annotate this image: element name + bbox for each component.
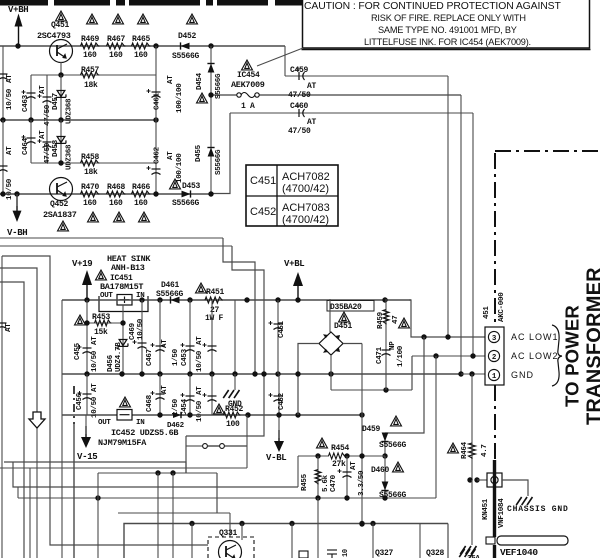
svg-text:AT: AT [6,74,14,83]
resistor R464 [469,443,476,459]
svg-text:R470: R470 [81,183,100,192]
capacitor C451 [269,321,283,330]
wire from C459 to pin3 [447,76,449,337]
wire C459 drop from top rail [284,46,286,76]
capacitor C463 [22,90,36,99]
wire ladder y513 [118,512,230,514]
svg-text:AT: AT [5,323,13,332]
ground below R464 [460,546,476,554]
junction pin1 x472 [469,371,474,376]
svg-text:15k: 15k [94,328,108,337]
junction R453 C455 [84,320,89,325]
wire ladder x30 [29,468,31,558]
junction rail374 x212 [209,371,214,376]
junction rail374 x235 [232,371,237,376]
svg-text:18k: 18k [84,81,98,90]
safety triangle R464 [448,443,459,453]
wire ladder x217 link [216,473,218,513]
brace to transformer [552,325,562,386]
wire R454 row left [298,455,329,457]
wire left cap column top [2,46,4,120]
resistor R453 [95,320,112,326]
junction rail right [244,297,249,302]
wire ladder x173 [172,473,174,558]
wire V+19 rail [62,299,411,301]
wire box divider x373 [372,524,374,558]
svg-text:D451: D451 [334,322,353,331]
junction pin3 x448 [445,334,450,339]
svg-text:47: 47 [392,316,400,324]
junction rail374 x255 [252,371,257,376]
wire bridge right to x362 [343,343,362,345]
transistor Q451 [50,40,73,63]
svg-text:R468: R468 [107,183,126,192]
wire bus drop x192 [191,524,193,558]
svg-text:10: 10 [342,549,350,557]
safety triangle Q451 [56,11,67,21]
resistor R457 [81,72,100,78]
svg-text:AT: AT [167,151,175,160]
capacitor 10/50 row2 [203,393,217,402]
fuse IC454 [211,93,461,98]
svg-text:10/50: 10/50 [196,400,204,422]
junction D459 R454 [382,453,387,458]
ferrite bead VEF1040 [497,536,568,545]
svg-text:Q452: Q452 [50,200,69,209]
svg-text:AT: AT [6,146,14,155]
junction pin2 x473 [470,353,475,358]
wire staircase inner [186,246,264,436]
svg-text:1/100: 1/100 [397,345,405,367]
safety triangle D460 [393,462,404,472]
wire ladder y487 [13,462,298,487]
wire C468 column [159,374,161,415]
wire gnd drop x235 [234,374,236,390]
V-BL arrow [274,430,284,452]
svg-text:3.3/50: 3.3/50 [358,470,366,496]
junction mid rail C461 [153,117,158,122]
svg-text:C471: C471 [376,346,384,364]
wire C460 row [230,112,473,114]
junction R464 KN451 a [467,477,472,482]
wire C454 column [189,374,191,415]
svg-text:VNF1084: VNF1084 [498,498,506,528]
junction rail374 x461 [458,371,463,376]
junction y498 D460 [382,495,387,500]
wire D458 column [60,120,62,163]
regulator IC451 outline [99,295,148,312]
wire pin2 row [412,355,486,357]
junction ladder y473 b [170,470,175,475]
capacitor C455 [78,345,92,354]
safety triangle D453 [170,179,181,189]
svg-text:160: 160 [109,51,123,60]
svg-text:1/50: 1/50 [172,348,180,366]
junction rail R459 [382,297,387,302]
transistor Q331 dashed box [208,537,254,558]
wire box divider x292 [291,524,293,558]
svg-text:AT: AT [307,82,317,91]
off-page hollow arrow [29,412,45,428]
diode D455 [207,148,214,157]
wire y487 to y498 link [17,487,19,498]
svg-text:C453: C453 [181,348,189,366]
wire KN451 left [477,479,487,481]
svg-text:4.7: 4.7 [481,444,489,457]
wire ladder y468 [0,467,247,469]
svg-text:2SA1837: 2SA1837 [43,210,77,220]
cropped text bar 8 [275,0,302,6]
svg-text:OUT: OUT [98,419,111,427]
svg-text:27k: 27k [332,460,346,469]
safety triangle R466 [139,212,150,222]
wire cap1050 column r2 [211,374,213,415]
ground at x235 [223,390,239,398]
svg-text:RISK OF FIRE. REPLACE ONLY WIT: RISK OF FIRE. REPLACE ONLY WITH [371,13,526,23]
svg-text:GND: GND [511,370,534,380]
capacitor 10/50 row1 [203,343,217,352]
junction bottom rail C471 [383,387,388,392]
junction R453 D456 [120,320,125,325]
svg-text:IC454: IC454 [237,71,260,80]
wire x247 rail415 to ladder [246,415,248,468]
svg-text:AT: AT [161,339,169,348]
junction fuse/D454 [208,92,213,97]
svg-text:AC LOW1: AC LOW1 [511,332,559,342]
V-15 arrow [81,426,91,448]
wire bridge bottom [330,355,332,390]
connector pin 3 circle [488,331,499,342]
wire C469 column [141,300,143,374]
capacitor C468 [151,391,165,400]
wire from fuse to pin1 rail [460,95,462,374]
junction R464 KN451 b [474,477,479,482]
svg-text:V-15: V-15 [77,452,97,462]
safety triangle R469 [87,14,98,24]
safety triangle R452 [214,404,225,414]
safety triangle D452 [187,14,198,24]
resistor R451 [205,297,223,303]
junction rail374 x190 [187,371,192,376]
wire nested corner 2 [0,268,37,412]
connector CN451 box [485,327,504,385]
wire staircase outer [223,238,255,374]
junction rail374 x264 [261,371,266,376]
caution note box [302,0,591,50]
svg-text:R455: R455 [301,473,309,491]
wire lower rail top section [0,193,211,195]
wire C464 column [30,120,32,163]
svg-text:C456: C456 [76,392,84,410]
svg-text:D453: D453 [182,182,201,191]
wire Q331 collector [241,524,243,541]
safety triangle R459 [399,318,410,328]
junction rail374 x87 [84,371,89,376]
junction R455 top [315,453,320,458]
svg-text:(4700/42): (4700/42) [282,183,329,195]
svg-text:S5566G: S5566G [172,199,200,208]
junction rail V+19 arrow [84,297,89,302]
svg-text:OUT: OUT [100,292,113,300]
wire V-BH feed outer [0,237,223,239]
cropped text bar 2 [54,0,63,6]
svg-text:D35BA20: D35BA20 [330,303,362,312]
svg-text:160: 160 [83,199,97,208]
connector pin small [486,537,495,544]
svg-text:10/50: 10/50 [91,350,99,372]
svg-text:C459: C459 [290,66,309,75]
capacitor C462 [147,166,161,175]
junction bus x362 [359,521,364,526]
svg-text:R452: R452 [225,405,244,414]
partial component bottom b [299,551,308,558]
svg-text:10/50: 10/50 [6,88,14,110]
capacitor 47/50 row B [38,139,52,148]
safety triangle Q452 [58,221,69,231]
junction rail415 C468 [157,412,162,417]
safety triangle R465 [138,14,149,24]
svg-text:C462: C462 [154,146,162,164]
wire ladder x230 [229,513,231,537]
safety triangle R453 [75,315,86,325]
junction rail C451 [275,297,280,302]
resistor R466 [132,191,151,197]
V+BL arrow [293,272,303,300]
svg-text:C452: C452 [250,206,276,218]
svg-text:C461: C461 [154,92,162,110]
svg-text:47/50: 47/50 [288,127,311,136]
svg-text:BA178M15T: BA178M15T [100,282,143,292]
svg-text:C452: C452 [278,392,286,410]
svg-text:KN451: KN451 [482,498,490,520]
junction rail374 x278 [275,371,280,376]
wire KN451 to chassis [502,480,528,496]
diode D454 [207,64,214,73]
svg-text:ACH7082: ACH7082 [282,171,330,183]
diode D462 [173,412,181,418]
svg-text:ACH7083: ACH7083 [282,202,330,214]
wire cap1050 column r1 [211,300,213,374]
wire D459 column [384,433,386,456]
wire V-BH stem [16,194,18,206]
svg-text:18k: 18k [84,168,98,177]
svg-text:1 A: 1 A [241,102,255,111]
svg-text:Q328: Q328 [426,549,445,558]
wire top rail [0,45,285,47]
wire nested corner 3 [0,282,24,558]
wire V-BL stem [278,415,280,438]
svg-text:AT: AT [167,75,175,84]
wire R455 column [317,456,319,498]
safety triangle R454 [317,438,328,448]
svg-text:C469: C469 [129,322,137,340]
wire bus corner right [447,524,449,558]
svg-text:160: 160 [109,199,123,208]
svg-text:100/100: 100/100 [176,153,184,183]
cropped text bar 6 [206,0,213,6]
svg-text:NJM79M15FA: NJM79M15FA [98,438,147,448]
svg-text:10/50: 10/50 [6,178,14,200]
wire x436 column [435,356,437,498]
junction bus x242 [239,521,244,526]
wire D460 column [384,456,386,498]
connector pin 2 circle [488,350,499,361]
capacitor C456 [78,391,92,400]
resistor R465 [132,43,151,49]
junction lower rail left edge [0,191,5,196]
svg-text:Q327: Q327 [375,549,394,558]
junction y498 C470 [344,495,349,500]
wire D455 column [210,95,212,194]
svg-text:AKC-000: AKC-000 [498,292,506,322]
svg-text:D460: D460 [371,466,390,475]
svg-text:C460: C460 [290,102,309,111]
svg-text:D455: D455 [195,144,203,162]
wire from C460 to pin2 [472,113,474,356]
wire V+19 rail left drop [61,300,63,558]
svg-text:V-BL: V-BL [266,453,286,463]
boundary thick lower [493,460,496,558]
svg-text:D458: D458 [52,139,60,157]
junction C452 rail415 [276,412,281,417]
wire left cap column B [2,120,4,194]
resistor R470 [81,191,100,197]
junction rail C469 [139,297,144,302]
capacitor C453 [181,343,195,352]
junction rail415 x362 [359,412,364,417]
svg-text:(4700/42): (4700/42) [282,214,329,226]
junction rail374 x160 [157,371,162,376]
junction rail C467 [157,297,162,302]
wire C452 column [278,374,280,415]
svg-text:AC LOW2: AC LOW2 [511,351,559,361]
table capacitors [246,165,338,226]
svg-text:160: 160 [134,51,148,60]
svg-text:D456: D456 [107,354,115,372]
V-BH arrow [13,195,22,222]
bridge rectifier D451 [319,332,343,355]
junction pin2 x436 [433,353,438,358]
junction rail374 x122 [119,371,124,376]
diode D459 [381,433,388,442]
junction ladder y473 a [155,470,160,475]
capacitor C460 [296,104,305,117]
V+BH arrow [15,14,23,45]
svg-text:CHASSIS GND: CHASSIS GND [507,505,569,514]
capacitor C469 [133,340,147,349]
junction mid rail D457 [58,117,63,122]
wire D457 column [60,75,62,120]
svg-text:V+19: V+19 [72,259,92,269]
resistor R458 [81,160,100,166]
svg-text:2SC4793: 2SC4793 [37,31,71,41]
wire R454 to D459 [345,455,385,457]
junction bus x192 [189,521,194,526]
diode D461 [171,296,180,303]
wire mid rail [0,119,156,121]
svg-text:100: 100 [226,420,240,429]
wire V-BH feed inner [0,245,232,247]
svg-text:AT: AT [196,386,204,395]
wire cap 47/50 row B [46,120,48,163]
wire C456 column [86,374,88,415]
transistor Q452 [50,178,73,201]
safety triangle R470 [88,212,99,222]
wire R458 row [31,162,156,164]
wire C455 column [86,300,88,374]
svg-text:CAUTION : FOR CONTINUED PROTEC: CAUTION : FOR CONTINUED PROTECTION AGAIN… [304,1,561,12]
wire ladder x158 [157,473,159,558]
junction rail374 x142 [139,371,144,376]
junction top rail at D454 column [208,43,213,48]
svg-text:AT: AT [91,383,99,392]
svg-text:Q331: Q331 [219,529,238,538]
wire x298 to ladder y487 [297,456,299,487]
junction rail C453 [187,297,192,302]
svg-text:V+BL: V+BL [284,259,304,269]
resistor R459 [383,310,389,325]
svg-text:D454: D454 [196,72,204,90]
wire pin3 to D459 [385,337,424,433]
V+19 arrow [82,270,92,300]
junction rail V+BL [295,297,300,302]
safety triangle IC454 [242,60,253,70]
jumper contacts [203,444,247,449]
svg-text:IN: IN [136,419,144,427]
svg-text:C467: C467 [146,349,154,366]
junction mid rail C463 [28,117,33,122]
junction rail415 x298 [295,412,300,417]
regulator IC452 outline [117,410,132,421]
svg-text:R465: R465 [132,35,151,44]
svg-text:47/50: 47/50 [288,91,311,100]
capacitor C452 cap [269,393,283,402]
wire IC452 rail [62,414,362,416]
svg-text:S5566G: S5566G [215,149,223,175]
resistor R452 [224,412,241,418]
partial component bottom a [327,550,337,558]
svg-text:C451: C451 [250,175,276,187]
junction rail415 x248 [245,412,250,417]
wire pin1 row [461,373,486,375]
svg-text:TRANSFORMER: TRANSFORMER [584,267,600,425]
wire bottom link row [18,497,436,499]
svg-text:C451: C451 [278,320,286,338]
svg-text:AEK7009: AEK7009 [231,80,265,90]
svg-text:5.6k: 5.6k [322,474,330,492]
spark gap KN451 [487,473,502,487]
wire jumper stub [186,445,202,447]
svg-text:47/50: 47/50 [44,104,52,126]
svg-text:R469: R469 [81,35,100,44]
leader line from caution box to IC454 [257,48,303,66]
safety triangle IC452 [120,397,131,407]
junction R457/Q451 emitter [58,72,63,77]
resistor R469 [81,43,100,49]
boundary dash-dot left [73,386,75,424]
wire box divider x420 [419,524,421,558]
svg-text:100/100: 100/100 [176,83,184,113]
svg-text:AT: AT [39,85,47,94]
svg-text:R467: R467 [107,35,126,44]
svg-text:Q451: Q451 [51,21,70,30]
label box D35BA20 [327,301,374,312]
wire Q451 emitter [60,62,62,76]
junction mid rail left cap [0,117,5,122]
svg-text:160: 160 [83,51,97,60]
wire bottom bus [124,524,448,558]
svg-text:LITTELFUSE INK. FOR IC454 (AEK: LITTELFUSE INK. FOR IC454 (AEK7009). [364,37,531,47]
